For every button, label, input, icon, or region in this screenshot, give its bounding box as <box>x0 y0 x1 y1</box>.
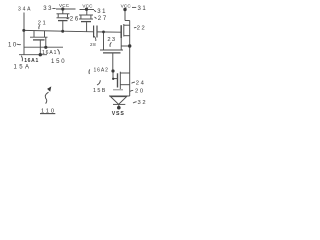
svg-text:31: 31 <box>138 6 148 12</box>
svg-text:VCC: VCC <box>59 3 70 8</box>
svg-text:22: 22 <box>137 25 147 31</box>
svg-text:28: 28 <box>90 42 96 47</box>
svg-text:16A2: 16A2 <box>94 68 109 74</box>
svg-text:150: 150 <box>51 59 66 65</box>
svg-text:21: 21 <box>38 20 47 26</box>
svg-text:34A: 34A <box>18 7 32 13</box>
svg-text:15B: 15B <box>93 88 107 94</box>
svg-text:27: 27 <box>98 16 108 22</box>
svg-text:10: 10 <box>8 42 18 48</box>
svg-text:15A: 15A <box>14 64 32 70</box>
svg-text:32: 32 <box>138 100 148 106</box>
svg-text:VSS: VSS <box>112 111 125 117</box>
svg-text:31: 31 <box>97 9 107 15</box>
svg-text:33: 33 <box>43 6 53 12</box>
svg-text:VCC: VCC <box>82 4 93 9</box>
svg-text:VCC: VCC <box>121 4 132 9</box>
svg-text:23: 23 <box>107 37 116 43</box>
svg-text:20: 20 <box>135 89 145 95</box>
svg-text:110: 110 <box>41 108 56 114</box>
svg-text:24: 24 <box>136 81 146 87</box>
svg-text:26: 26 <box>70 16 80 22</box>
svg-text:16A1: 16A1 <box>42 50 57 56</box>
svg-text:16A1: 16A1 <box>24 58 39 64</box>
